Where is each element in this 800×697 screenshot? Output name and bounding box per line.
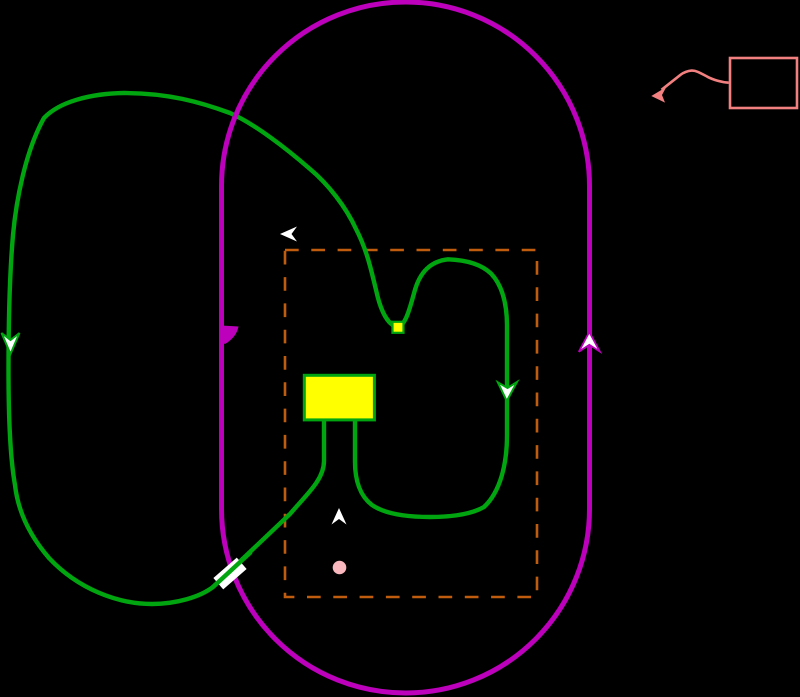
crossing marker (white) [213, 558, 246, 590]
arrow: white left-pointing near box top [280, 227, 297, 242]
wire overlay over crossing marker [213, 552, 251, 587]
magenta half-arrow on left side (down) [221, 326, 239, 344]
arrow: green inner descent, down [498, 382, 517, 401]
leader arrow from label box [662, 71, 729, 90]
field line: magenta stadium loop [222, 2, 590, 693]
wire: green circuit loop [9, 93, 508, 604]
arrow: magenta right side, up [579, 332, 600, 352]
dashed boundary box [285, 250, 537, 597]
arrow: white up-pointing inside box [332, 508, 347, 525]
junction square (yellow) [393, 322, 404, 333]
point marker: pink dot [333, 561, 347, 575]
label box (salmon) [730, 58, 797, 108]
arrow: green loop left side, down [2, 333, 20, 354]
component box (yellow) [304, 375, 374, 420]
